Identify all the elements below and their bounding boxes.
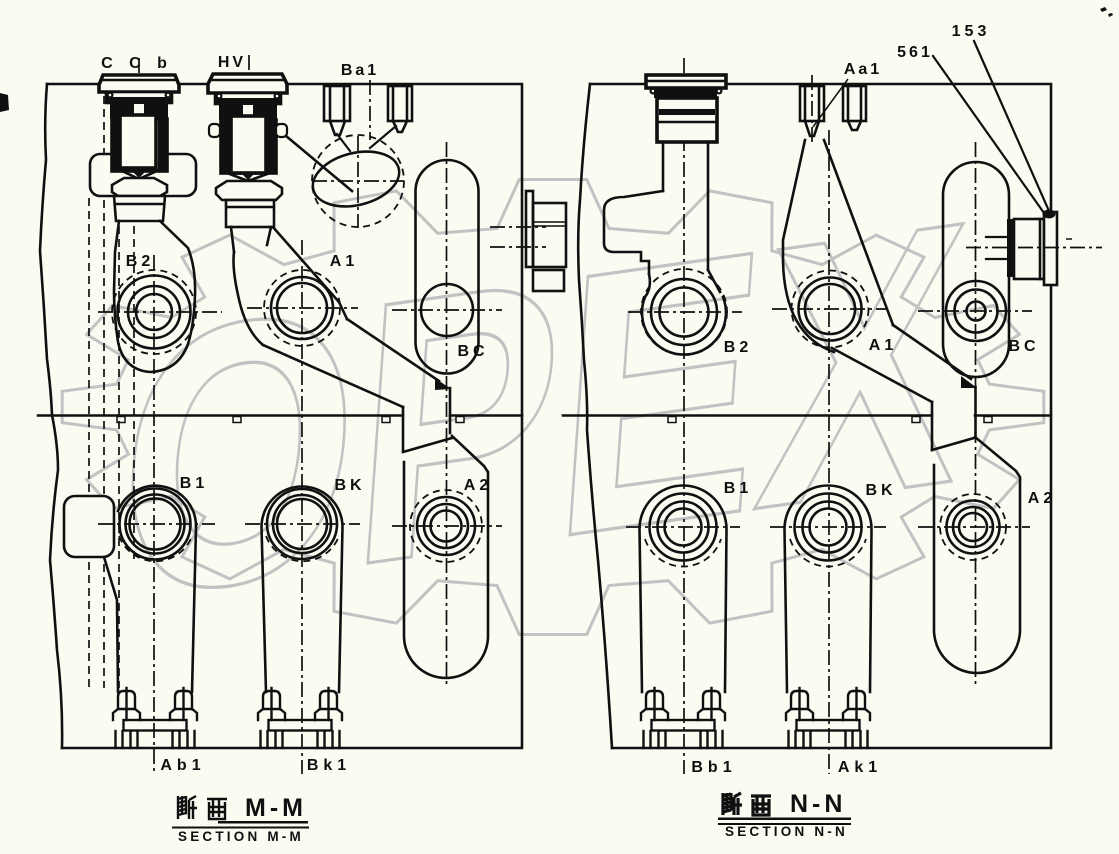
- svg-text:A1: A1: [330, 253, 358, 270]
- svg-text:153: 153: [952, 23, 991, 40]
- A2 lug (right): [934, 437, 1020, 673]
- centerline Ba1: [369, 80, 371, 140]
- right block outline: [590, 84, 1051, 748]
- port B2 (left): [98, 270, 222, 354]
- check ball chamber (dashed circle): [312, 135, 404, 227]
- port BC (left): [392, 284, 502, 336]
- centerline column B2/B1 right: [683, 58, 685, 774]
- svg-text:B2: B2: [126, 253, 154, 270]
- svg-text:Aa1: Aa1: [844, 61, 882, 78]
- centerline plug Aa1: [811, 75, 813, 142]
- BC stadium slot (right): [943, 162, 1009, 377]
- rounded boss on left edge: [64, 496, 114, 557]
- leader 153: [974, 41, 1049, 211]
- title section N-N: [718, 790, 851, 839]
- mid-line notches left: [117, 417, 125, 423]
- lug below BK (left): [262, 487, 343, 693]
- port BC (right): [918, 281, 1032, 341]
- flow passage S-curve (left block): [234, 226, 453, 452]
- svg-text:M-M: M-M: [245, 794, 307, 822]
- flow passage S-curve (right block): [783, 140, 976, 450]
- right block mid parting line: [563, 414, 932, 417]
- bolt bracket Ak1: [786, 688, 870, 748]
- leader Aa1: [813, 79, 848, 127]
- funnel boss around B2 (left): [114, 221, 195, 372]
- port A2 (right): [918, 494, 1030, 560]
- svg-text:SECTION N-N: SECTION N-N: [725, 824, 848, 839]
- speckles top-right: [1100, 7, 1113, 17]
- port B1 (left): [98, 489, 215, 560]
- svg-text:Ab1: Ab1: [160, 757, 205, 774]
- svg-text:Bb1: Bb1: [691, 759, 736, 776]
- BC stadium slot (left): [416, 160, 479, 374]
- svg-text:A2: A2: [1028, 490, 1056, 507]
- svg-text:A2: A2: [464, 477, 492, 494]
- svg-text:561: 561: [897, 44, 933, 61]
- svg-text:N-N: N-N: [790, 790, 846, 818]
- svg-text:SECTION M-M: SECTION M-M: [178, 829, 304, 844]
- svg-text:A1: A1: [869, 337, 897, 354]
- port A1 (right): [772, 271, 888, 348]
- scan artifact: [0, 93, 9, 112]
- svg-text:BK: BK: [334, 477, 365, 494]
- passage corner triangle (right): [961, 376, 977, 388]
- mid-line notches right: [668, 417, 676, 423]
- lug below BK (right): [785, 486, 872, 693]
- port B1 (right): [626, 494, 740, 561]
- plug Aa1 #2: [843, 86, 866, 130]
- lug below B1 (right): [640, 486, 727, 693]
- centerline column BC/A2: [446, 142, 448, 688]
- svg-text:C C b: C C b: [101, 55, 173, 72]
- bolt bracket Bk1: [258, 688, 342, 748]
- diagonal from HV ear to check ball: [286, 136, 352, 191]
- outlet connector 561/153: [986, 212, 1057, 285]
- svg-text:B2: B2: [724, 339, 752, 356]
- port BK (left): [245, 489, 360, 559]
- watermark OPEX text: [106, 141, 979, 679]
- outlet fitting (left block right edge): [526, 191, 566, 291]
- passage corner triangle (left): [435, 378, 451, 390]
- bolt bracket Ab1: [113, 688, 197, 748]
- centerline valve CCb: [138, 58, 140, 215]
- title section M-M: [172, 794, 309, 844]
- centerline column A1/BK: [301, 240, 303, 774]
- port B2 (right): [628, 269, 742, 355]
- svg-text:B1: B1: [180, 475, 208, 492]
- svg-text:BC: BC: [457, 343, 488, 360]
- valve HV cartridge: [208, 74, 287, 252]
- centerline column A1/BK right: [828, 130, 830, 774]
- watermark gear: [62, 180, 1044, 635]
- lug below B1 (left): [104, 557, 118, 692]
- bolt bracket Bb1: [641, 688, 725, 748]
- leader 561: [933, 56, 1044, 213]
- valve CCb side bosses: [90, 154, 196, 196]
- A2 lug (left): [404, 436, 488, 678]
- port A1 (left): [247, 270, 358, 346]
- svg-text:BC: BC: [1008, 338, 1039, 355]
- plug Aa1 #1: [800, 86, 824, 136]
- left block mid parting line: [38, 414, 403, 417]
- hidden passage lines (dashed): [88, 198, 90, 688]
- passage lines into check ball: [337, 134, 350, 151]
- centerline valve HV: [248, 55, 250, 222]
- svg-text:Bk1: Bk1: [307, 757, 351, 774]
- left block outline: [47, 84, 522, 748]
- plug Ba1 #2: [388, 86, 412, 132]
- svg-text:Ba1: Ba1: [341, 62, 379, 79]
- svg-text:Ak1: Ak1: [838, 759, 882, 776]
- svg-text:HV: HV: [218, 54, 246, 71]
- svg-text:BK: BK: [865, 482, 896, 499]
- port BK (right): [770, 494, 886, 561]
- centerline column BC/A2 right: [975, 142, 977, 688]
- port A2 (left): [392, 490, 502, 562]
- valve CCb cartridge: [99, 75, 179, 221]
- svg-text:B1: B1: [724, 480, 752, 497]
- filter cap (right block): [604, 75, 726, 355]
- centerline column B2/B1: [153, 255, 155, 774]
- plug Ba1 #1: [324, 86, 350, 135]
